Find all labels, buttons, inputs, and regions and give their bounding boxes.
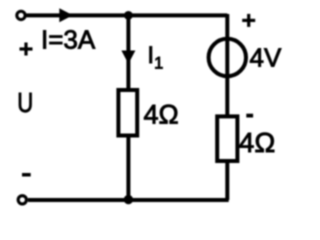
wire top horizontal	[27, 13, 228, 17]
voltage source 4V	[209, 39, 246, 76]
wire right branch upper (passes through source circle)	[225, 14, 229, 116]
svg-text:U: U	[17, 87, 33, 118]
arrow current I1 on middle branch	[121, 51, 135, 64]
terminal top-left	[17, 11, 25, 19]
node bottom junction	[124, 195, 133, 204]
minus sign left	[22, 173, 31, 177]
wire bottom horizontal	[28, 198, 229, 202]
svg-text:I=3A: I=3A	[41, 25, 96, 55]
svg-text:I1: I1	[147, 42, 163, 73]
resistor R2 4ohm right	[217, 116, 237, 161]
svg-text:4Ω: 4Ω	[144, 100, 179, 130]
svg-text:4V: 4V	[250, 43, 282, 73]
resistor R1 4ohm middle	[118, 90, 137, 136]
plus sign left	[20, 43, 33, 56]
node top junction	[124, 11, 133, 20]
wire middle branch upper	[126, 15, 130, 90]
arrow current I on top wire	[59, 8, 73, 22]
wire middle branch lower	[126, 136, 130, 201]
minus sign right	[246, 114, 253, 118]
plus sign right	[242, 14, 255, 27]
svg-text:4Ω: 4Ω	[239, 127, 276, 158]
wire right branch lower	[225, 161, 229, 200]
terminal bottom-left	[18, 196, 26, 204]
